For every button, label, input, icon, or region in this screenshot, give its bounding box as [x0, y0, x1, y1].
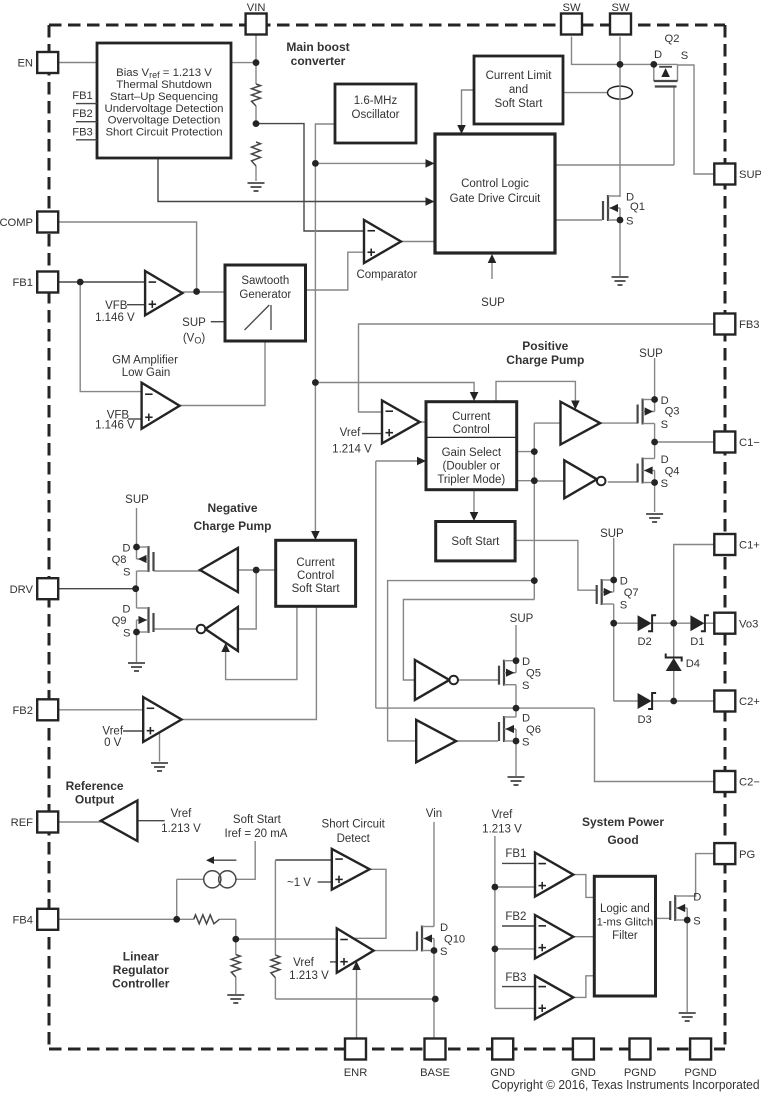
svg-text:0 V: 0 V: [104, 737, 122, 749]
svg-text:Start–Up Sequencing: Start–Up Sequencing: [110, 91, 218, 103]
svg-text:Short Circuit: Short Circuit: [322, 819, 386, 831]
svg-text:Controller: Controller: [112, 977, 170, 991]
svg-text:FB2: FB2: [12, 705, 33, 717]
svg-text:Q3: Q3: [665, 406, 680, 418]
svg-text:FB2: FB2: [72, 108, 93, 120]
svg-text:DRV: DRV: [10, 584, 34, 596]
svg-text:Overvoltage Detection: Overvoltage Detection: [108, 115, 221, 127]
svg-text:D: D: [440, 922, 448, 934]
svg-text:Short Circuit Protection: Short Circuit Protection: [105, 127, 222, 139]
svg-text:VIN: VIN: [247, 2, 266, 14]
svg-text:Q2: Q2: [665, 33, 680, 45]
svg-text:Control: Control: [297, 570, 334, 582]
svg-text:D: D: [693, 892, 701, 904]
svg-text:Charge Pump: Charge Pump: [193, 519, 271, 533]
svg-text:Gate Drive Circuit: Gate Drive Circuit: [450, 193, 542, 205]
svg-text:Negative: Negative: [207, 501, 257, 515]
svg-text:Soft Start: Soft Start: [495, 98, 544, 110]
svg-text:C1+: C1+: [739, 540, 760, 552]
svg-text:Control: Control: [453, 424, 490, 436]
svg-text:Vref: Vref: [340, 427, 361, 439]
svg-text:SUP: SUP: [481, 297, 505, 309]
svg-text:Q1: Q1: [630, 201, 645, 213]
svg-text:Vref: Vref: [102, 726, 123, 738]
svg-text:Vref: Vref: [171, 808, 192, 820]
svg-text:C2−: C2−: [739, 777, 760, 789]
svg-text:S: S: [626, 216, 633, 228]
svg-text:Q4: Q4: [665, 466, 680, 478]
svg-text:Q10: Q10: [444, 934, 465, 946]
svg-text:FB2: FB2: [505, 911, 526, 923]
svg-text:S: S: [123, 567, 130, 579]
svg-text:C1−: C1−: [739, 437, 760, 449]
svg-text:FB1: FB1: [505, 848, 526, 860]
svg-text:(VO): (VO): [183, 333, 206, 346]
svg-text:Current: Current: [452, 411, 491, 423]
svg-text:Detect: Detect: [337, 833, 371, 845]
svg-text:Tripler Mode): Tripler Mode): [437, 474, 505, 486]
svg-text:S: S: [661, 478, 668, 490]
svg-text:Oscillator: Oscillator: [352, 109, 400, 121]
svg-text:REF: REF: [11, 817, 34, 829]
svg-text:VFB: VFB: [105, 300, 128, 312]
svg-text:Reference: Reference: [66, 779, 124, 793]
svg-text:D: D: [522, 656, 530, 668]
svg-text:SW: SW: [562, 2, 580, 14]
svg-text:Charge Pump: Charge Pump: [506, 353, 584, 367]
svg-text:D: D: [122, 543, 130, 555]
svg-text:SUP: SUP: [639, 348, 663, 360]
svg-text:D2: D2: [637, 636, 651, 648]
svg-text:Undervoltage Detection: Undervoltage Detection: [104, 103, 223, 115]
svg-text:EN: EN: [17, 58, 33, 70]
svg-text:Vref: Vref: [492, 809, 513, 821]
svg-text:Q5: Q5: [526, 668, 541, 680]
svg-text:FB1: FB1: [12, 277, 33, 289]
svg-text:S: S: [661, 419, 668, 431]
svg-text:GM Amplifier: GM Amplifier: [112, 355, 178, 367]
svg-text:Copyright © 2016, Texas Instru: Copyright © 2016, Texas Instruments Inco…: [492, 1077, 760, 1092]
svg-text:converter: converter: [291, 54, 346, 68]
svg-text:Current Limit: Current Limit: [486, 70, 553, 82]
svg-text:Thermal Shutdown: Thermal Shutdown: [116, 79, 212, 91]
svg-text:SUP: SUP: [182, 317, 206, 329]
svg-text:Sawtooth: Sawtooth: [241, 275, 289, 287]
svg-text:Regulator: Regulator: [113, 963, 169, 977]
svg-text:S: S: [681, 50, 688, 62]
svg-text:FB3: FB3: [739, 319, 760, 331]
svg-text:Soft Start: Soft Start: [233, 814, 282, 826]
svg-text:Vo3: Vo3: [739, 618, 758, 630]
svg-text:1.213 V: 1.213 V: [289, 970, 329, 982]
svg-text:COMP: COMP: [0, 217, 33, 229]
svg-text:Low Gain: Low Gain: [122, 367, 171, 379]
svg-text:Filter: Filter: [612, 930, 638, 942]
svg-text:1.146 V: 1.146 V: [95, 312, 135, 324]
svg-text:D: D: [661, 454, 669, 466]
svg-text:System Power: System Power: [582, 815, 664, 829]
svg-text:~1 V: ~1 V: [287, 877, 311, 889]
svg-text:1.213 V: 1.213 V: [482, 824, 522, 836]
svg-text:SUP: SUP: [600, 528, 624, 540]
svg-text:S: S: [693, 916, 700, 928]
svg-text:FB3: FB3: [72, 126, 93, 138]
svg-text:1.6-MHz: 1.6-MHz: [354, 95, 398, 107]
svg-text:and: and: [509, 84, 528, 96]
svg-text:D: D: [654, 49, 662, 61]
svg-text:Main boost: Main boost: [286, 40, 349, 54]
svg-text:Q7: Q7: [624, 587, 639, 599]
svg-text:1.146 V: 1.146 V: [95, 420, 135, 432]
svg-text:1.213 V: 1.213 V: [161, 823, 201, 835]
svg-text:D: D: [122, 604, 130, 616]
svg-text:Gain Select: Gain Select: [442, 447, 502, 459]
svg-text:S: S: [440, 946, 447, 958]
svg-text:D: D: [522, 713, 530, 725]
svg-text:SW: SW: [611, 2, 629, 14]
svg-text:D1: D1: [690, 636, 704, 648]
svg-text:D: D: [620, 576, 628, 588]
svg-text:Q9: Q9: [112, 615, 127, 627]
svg-text:Vref: Vref: [293, 957, 314, 969]
svg-text:D4: D4: [686, 658, 700, 670]
svg-text:C2+: C2+: [739, 696, 760, 708]
svg-text:Logic and: Logic and: [600, 903, 650, 915]
svg-text:ENR: ENR: [344, 1067, 368, 1079]
svg-text:Soft Start: Soft Start: [292, 583, 341, 595]
svg-text:S: S: [522, 737, 529, 749]
svg-text:Q8: Q8: [112, 554, 127, 566]
svg-text:Current: Current: [296, 557, 335, 569]
svg-text:PG: PG: [739, 849, 755, 861]
svg-text:BASE: BASE: [420, 1067, 450, 1079]
svg-text:Output: Output: [75, 793, 114, 807]
svg-text:Vin: Vin: [426, 808, 442, 820]
svg-text:Linear: Linear: [123, 950, 159, 964]
svg-text:1-ms Glitch: 1-ms Glitch: [597, 917, 654, 929]
svg-text:Good: Good: [607, 833, 638, 847]
svg-text:SUP: SUP: [510, 613, 534, 625]
svg-text:Soft Start: Soft Start: [451, 536, 500, 548]
svg-text:Generator: Generator: [239, 289, 291, 301]
svg-text:Iref = 20 mA: Iref = 20 mA: [225, 828, 288, 840]
svg-text:S: S: [620, 600, 627, 612]
svg-text:FB4: FB4: [12, 915, 33, 927]
svg-text:(Doubler or: (Doubler or: [443, 461, 501, 473]
svg-text:Positive: Positive: [522, 339, 568, 353]
svg-text:1.214 V: 1.214 V: [332, 444, 372, 456]
svg-text:D3: D3: [637, 714, 651, 726]
svg-text:SUP: SUP: [739, 169, 761, 181]
svg-text:Q6: Q6: [526, 724, 541, 736]
svg-text:S: S: [522, 680, 529, 692]
svg-text:SUP: SUP: [125, 494, 149, 506]
svg-text:FB1: FB1: [72, 90, 93, 102]
svg-text:Control Logic: Control Logic: [461, 178, 529, 190]
svg-text:S: S: [123, 628, 130, 640]
svg-text:FB3: FB3: [505, 972, 526, 984]
svg-text:Comparator: Comparator: [356, 269, 417, 281]
